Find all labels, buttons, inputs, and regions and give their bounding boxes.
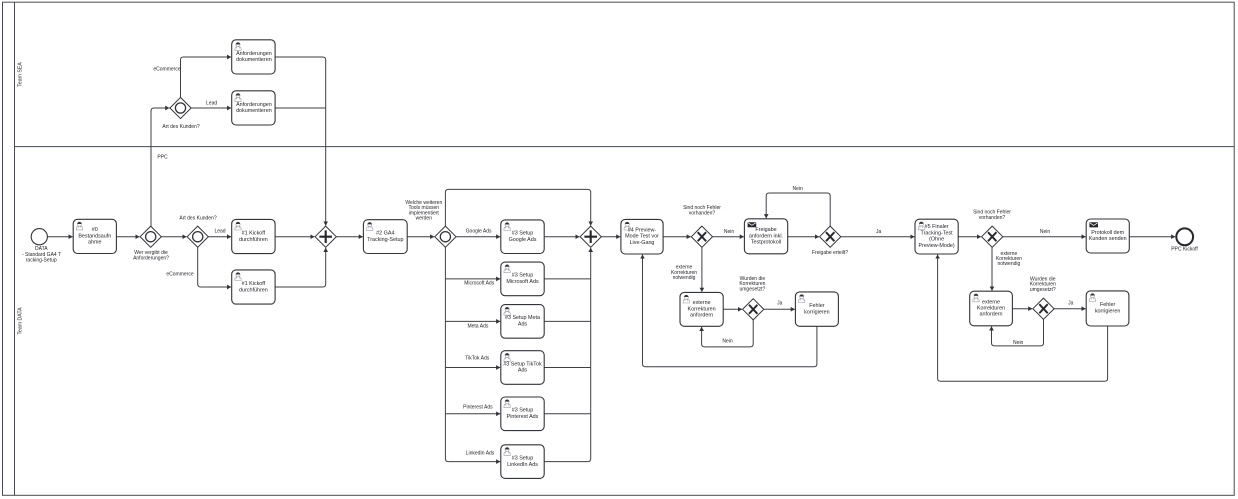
svg-text:#1 Kickoff: #1 Kickoff [242,281,266,287]
svg-text:Fehler: Fehler [1100,302,1115,308]
svg-text:externe: externe [982,299,1000,305]
svg-text:#3 Setup Meta: #3 Setup Meta [505,315,540,321]
svg-text:LinkedIn Ads: LinkedIn Ads [507,462,538,468]
svg-text:Google Ads: Google Ads [509,237,537,243]
svg-text:durchführen: durchführen [239,287,268,293]
svg-text:Mode Test vor: Mode Test vor [625,234,659,240]
svg-text:(Ohne: (Ohne [929,237,944,243]
svg-text:notwendig: notwendig [998,261,1021,267]
svg-text:#3 Setup TikTok: #3 Setup TikTok [503,361,542,367]
svg-text:Korrekturen: Korrekturen [688,306,716,312]
svg-text:eCommerce: eCommerce [166,272,193,278]
svg-text:vorhanden?: vorhanden? [979,215,1006,221]
svg-text:Ja: Ja [777,301,783,307]
svg-text:anfordern: anfordern [690,313,713,319]
svg-text:Kunden senden: Kunden senden [1089,236,1127,242]
svg-text:Live-Gang: Live-Gang [630,240,655,246]
svg-text:PPC: PPC [157,154,168,160]
svg-text:Testprotokoll: Testprotokoll [751,240,781,246]
svg-text:Tracking-Setup: Tracking-Setup [367,237,403,243]
svg-text:Ja: Ja [1068,301,1074,307]
svg-text:dokumentieren: dokumentieren [236,108,272,114]
svg-text:Ads: Ads [518,368,528,374]
svg-text:#3 Setup: #3 Setup [512,408,534,414]
svg-text:Team DATA: Team DATA [18,307,24,335]
svg-text:#5 Finaler: #5 Finaler [925,224,949,230]
svg-text:werden: werden [416,216,433,222]
svg-text:externe: externe [693,300,711,306]
svg-text:Art des Kunden?: Art des Kunden? [162,124,199,130]
svg-text:notwendig: notwendig [673,275,696,281]
svg-text:korrigieren: korrigieren [804,309,829,315]
svg-text:Nein: Nein [722,339,733,345]
svg-text:Google Ads: Google Ads [466,229,492,235]
svg-text:umgesetzt?: umgesetzt? [739,286,765,292]
svg-text:Pinterest Ads: Pinterest Ads [507,414,539,420]
svg-text:Ja: Ja [876,229,882,235]
svg-text:PPC Kickoff: PPC Kickoff [1171,246,1198,252]
svg-text:anfordern: anfordern [979,312,1002,318]
svg-text:LinkedIn Ads: LinkedIn Ads [466,450,495,456]
svg-text:Nein: Nein [724,229,735,235]
svg-text:eCommerce: eCommerce [153,67,180,73]
svg-text:#3 Setup: #3 Setup [512,455,534,461]
svg-text:Nein: Nein [793,186,804,192]
svg-text:Pinterest Ads: Pinterest Ads [463,404,493,410]
svg-text:anfordern inkl.: anfordern inkl. [749,233,783,239]
svg-text:Lead: Lead [206,101,217,107]
svg-text:Korrekturen: Korrekturen [977,306,1005,312]
svg-text:#3 Setup: #3 Setup [512,273,534,279]
svg-text:Anforderungen: Anforderungen [236,102,272,108]
svg-text:Tracking-Test: Tracking-Test [921,230,954,236]
svg-text:Fehler: Fehler [809,303,824,309]
svg-text:#3 Setup: #3 Setup [512,231,534,237]
svg-text:Meta Ads: Meta Ads [467,323,488,329]
svg-text:#0: #0 [92,227,98,233]
svg-text:Microsoft Ads: Microsoft Ads [464,281,495,287]
svg-text:ahme: ahme [88,240,102,246]
svg-text:dokumentieren: dokumentieren [236,57,272,63]
svg-text:racking-Setup: racking-Setup [26,258,57,264]
svg-text:Preview-Mode): Preview-Mode) [918,243,954,249]
svg-text:#2 GA4: #2 GA4 [376,230,394,236]
svg-text:Freigabe erteilt?: Freigabe erteilt? [812,250,848,256]
svg-text:korrigieren: korrigieren [1095,309,1120,315]
svg-text:Art des Kunden?: Art des Kunden? [179,216,216,222]
svg-text:Nein: Nein [1040,229,1051,235]
svg-text:Team SEA: Team SEA [18,62,24,87]
svg-text:umgesetzt?: umgesetzt? [1030,287,1056,293]
svg-text:Ads: Ads [518,322,528,328]
svg-text:durchführen: durchführen [239,237,268,243]
svg-text:vorhanden?: vorhanden? [689,210,716,216]
svg-text:Freigabe: Freigabe [755,227,776,233]
svg-text:Microsoft Ads: Microsoft Ads [506,279,539,285]
svg-text:Bestandsaufn: Bestandsaufn [78,233,111,239]
svg-text:Anforderungen: Anforderungen [236,51,272,57]
svg-text:#4 Preview-: #4 Preview- [628,227,657,233]
svg-text:Lead: Lead [214,229,225,235]
svg-text:TikTok Ads: TikTok Ads [465,355,489,361]
svg-text:Anforderungen?: Anforderungen? [133,255,169,261]
svg-text:#1 Kickoff: #1 Kickoff [242,230,266,236]
svg-text:Nein: Nein [1013,340,1024,346]
